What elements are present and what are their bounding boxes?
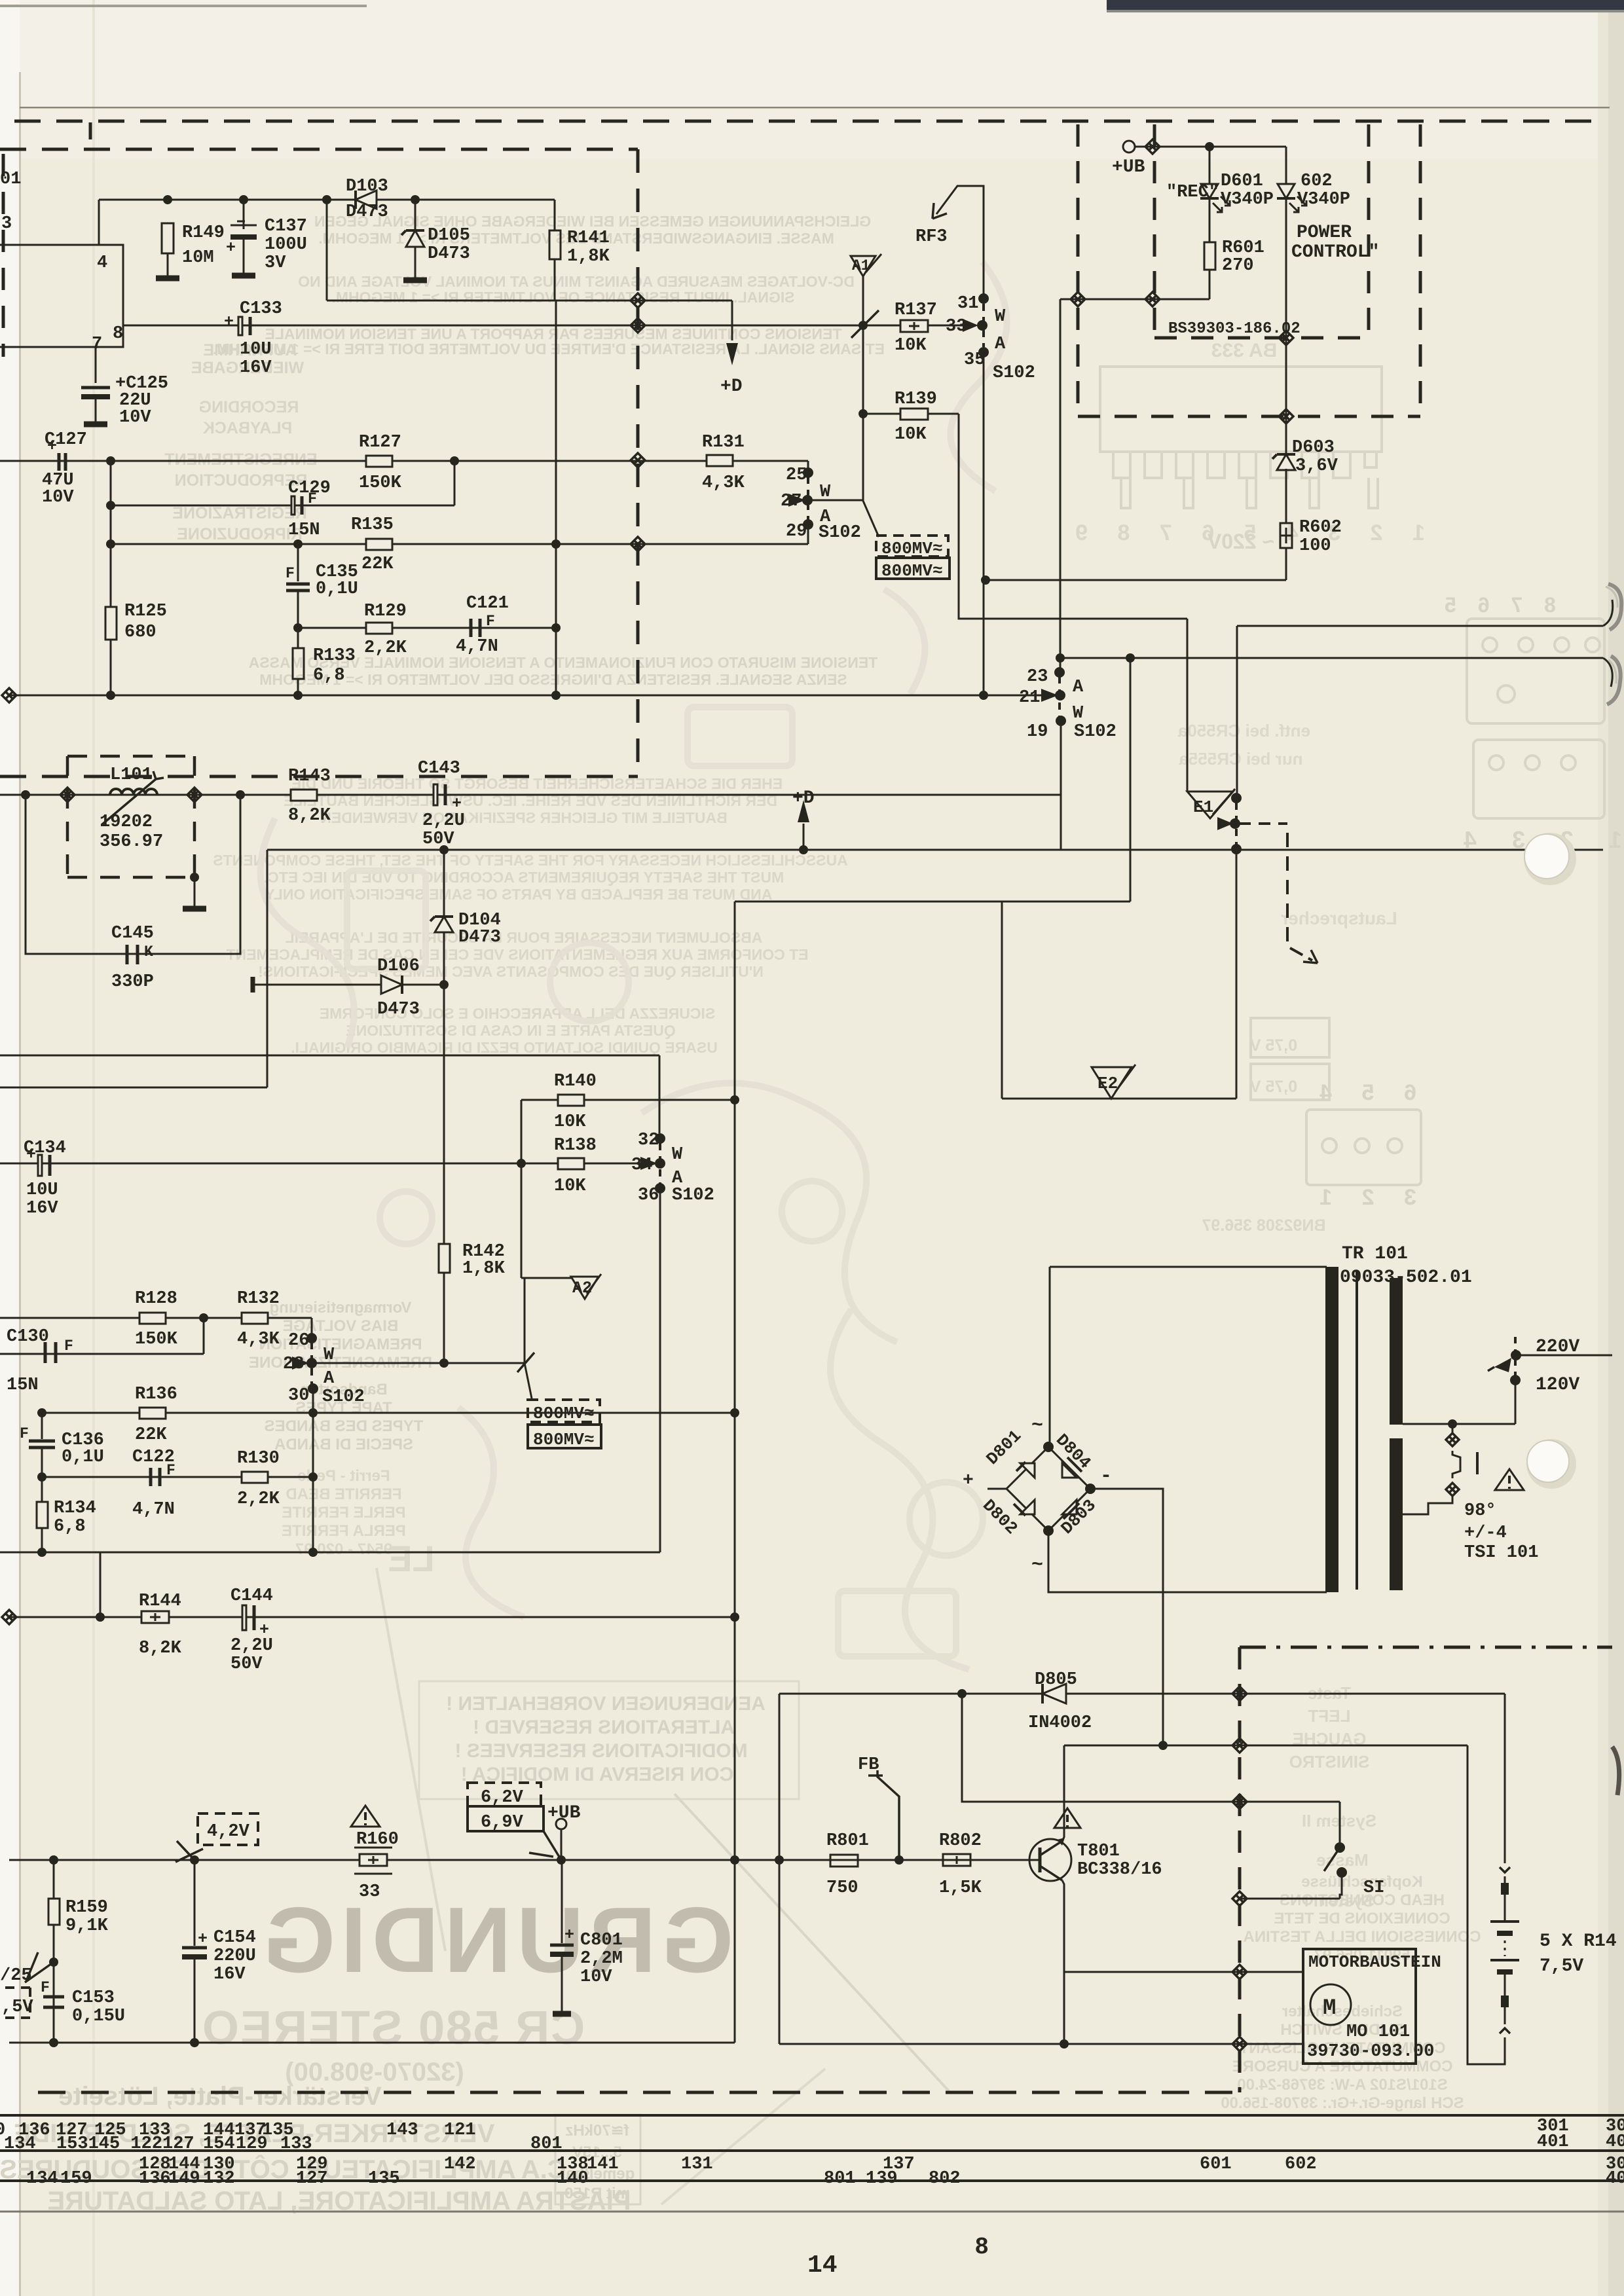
svg-text:29: 29 xyxy=(786,522,807,541)
svg-text:136: 136 xyxy=(139,2169,171,2189)
svg-text:A: A xyxy=(1073,678,1084,697)
svg-text:C134: C134 xyxy=(24,1139,66,1158)
resistor R128 xyxy=(139,1313,166,1324)
svg-text:A: A xyxy=(323,1369,335,1389)
measurement box 4,2V xyxy=(198,1813,258,1845)
svg-text:801: 801 xyxy=(530,2134,563,2154)
wire y959 xyxy=(298,627,556,629)
wire SI feed: x1469 drop and y2752 xyxy=(962,1694,1340,1802)
node dot x169 y772 xyxy=(106,501,115,510)
svg-text:ET SANS SIGNAL. LA RESISTANCE: ET SANS SIGNAL. LA RESISTANCE D'ENTREE D… xyxy=(213,340,885,357)
leader 6,9V to +UB node xyxy=(529,1831,561,1860)
svg-text:30: 30 xyxy=(288,1386,309,1406)
svg-text:3: 3 xyxy=(1,214,12,234)
svg-text:4,3K: 4,3K xyxy=(702,473,745,493)
svg-text:220V: 220V xyxy=(1536,1337,1579,1357)
wire x153 link xyxy=(100,1552,101,1617)
svg-text:D473: D473 xyxy=(346,202,388,222)
leader 4,2V to node xyxy=(175,1841,203,1862)
svg-text:RECORDING: RECORDING xyxy=(199,398,299,416)
footer rule 2 xyxy=(0,2149,1624,2152)
svg-text:6,9V: 6,9V xyxy=(481,1813,524,1832)
wire RF3 feed from contact 31 xyxy=(936,186,984,299)
wire motor return y3122 xyxy=(779,2043,1303,2045)
svg-text:33: 33 xyxy=(946,317,967,337)
wire x1530 drop to E2 rail xyxy=(1001,902,1003,1099)
wire contact 29 to y831 xyxy=(807,524,809,544)
wire R131 to contact 25 xyxy=(807,461,809,468)
svg-text:DC-VOLTAGES MEASURED AGAINST M: DC-VOLTAGES MEASURED AGAINST MINUS AT NO… xyxy=(298,273,855,290)
right connector bleeds xyxy=(1467,619,1604,818)
dashed lower module border left xyxy=(1238,1647,1242,2092)
svg-text:15N: 15N xyxy=(7,1376,39,1395)
node dot bridge right xyxy=(1085,1484,1096,1494)
measurement boxes 6,2V / 6,9V xyxy=(468,1783,544,1831)
node dot x311 y2013 xyxy=(199,1313,208,1322)
capacitor C144 xyxy=(244,1605,254,1630)
svg-text:W: W xyxy=(323,1345,335,1365)
slash mark at junction xyxy=(851,310,879,338)
capacitor C135 xyxy=(297,544,299,581)
svg-text:270: 270 xyxy=(1222,256,1254,276)
node dot x849 y831 xyxy=(551,539,561,549)
diamond node x1893 y2752 xyxy=(1232,1795,1247,1809)
wire y2666 rail xyxy=(1064,1745,1467,1747)
node dot R149 top xyxy=(163,195,172,204)
svg-text:26: 26 xyxy=(288,1331,309,1351)
svg-text:Lautsprecher: Lautsprecher xyxy=(1281,908,1397,928)
node dot x169 y1062 xyxy=(106,691,115,700)
diamond node wire y703 / dashed x974 xyxy=(631,453,645,467)
svg-text:143: 143 xyxy=(386,2121,418,2140)
svg-text:402: 402 xyxy=(1606,2132,1624,2152)
svg-text:10K: 10K xyxy=(554,1176,586,1196)
wire y1377 link xyxy=(735,901,1130,903)
wire y1062 long rail xyxy=(8,695,1048,697)
node dot x1776 y2666 xyxy=(1158,1741,1168,1750)
svg-text:2,2K: 2,2K xyxy=(237,1489,280,1509)
svg-text:159: 159 xyxy=(60,2169,92,2189)
capacitor C129 xyxy=(293,496,302,515)
resistor R136 xyxy=(139,1408,166,1419)
resistor R125 xyxy=(110,544,112,607)
svg-text:MUST THE SAFETY REQUIREMENTS A: MUST THE SAFETY REQUIREMENTS ACCORDING T… xyxy=(264,869,784,886)
node dot x1190 y2841 xyxy=(775,1855,784,1865)
svg-text:R802: R802 xyxy=(939,1831,982,1851)
diamond node x1893 y3012 xyxy=(1232,1965,1247,1979)
svg-text:6,8: 6,8 xyxy=(313,666,345,685)
dashed bottom border xyxy=(38,2091,1240,2094)
ground C125 xyxy=(84,422,107,428)
svg-text:S102: S102 xyxy=(993,363,1035,383)
diamond node x1893 y2900 xyxy=(1232,1891,1247,1906)
svg-text:21: 21 xyxy=(1019,688,1040,708)
node dot bridge bottom xyxy=(1043,1525,1054,1536)
svg-text:140: 140 xyxy=(557,2169,589,2189)
svg-text:/25: /25 xyxy=(0,1966,32,1986)
node dot x64 y2256 xyxy=(37,1472,46,1482)
svg-text:4,7N: 4,7N xyxy=(456,637,498,657)
node dot x1122 y2470 xyxy=(730,1613,739,1622)
svg-text:R131: R131 xyxy=(702,433,745,452)
svg-text:R125: R125 xyxy=(124,602,167,621)
svg-text:C121: C121 xyxy=(466,594,509,613)
wire x1726 xyxy=(1130,658,1132,902)
svg-text:154: 154 xyxy=(203,2134,235,2154)
wire vertical x849 R141 column xyxy=(555,301,557,695)
svg-text:SPECIE DI BANDA: SPECIE DI BANDA xyxy=(274,1436,413,1453)
capacitor C143 xyxy=(435,784,445,805)
leader to level boxes xyxy=(863,501,879,537)
diamond node x103 y1214 xyxy=(60,788,75,802)
svg-text:800MV: 800MV xyxy=(881,539,932,558)
svg-text:22K: 22K xyxy=(361,555,394,574)
svg-text:356.97: 356.97 xyxy=(100,832,163,852)
resistor R133 xyxy=(297,628,299,648)
svg-text:E2: E2 xyxy=(1098,1074,1118,1093)
svg-text:0,15U: 0,15U xyxy=(72,2007,125,2026)
svg-text:C127: C127 xyxy=(45,430,87,450)
node dot x82 y3120 xyxy=(49,2038,58,2047)
wire y886 xyxy=(986,579,1286,581)
wire C122 rail y2256 xyxy=(42,1476,313,1478)
wire R128 rail y2013 xyxy=(0,1317,312,1319)
svg-text:100U: 100U xyxy=(265,235,307,255)
wiper arrow contact 27 xyxy=(788,494,805,507)
svg-text:TR 101: TR 101 xyxy=(1342,1244,1408,1264)
svg-text:Verstärker-Platte, Lötseite: Verstärker-Platte, Lötseite xyxy=(58,2082,382,2111)
node dot x857 y2841 xyxy=(557,1855,566,1865)
svg-text:F: F xyxy=(20,1425,29,1442)
svg-text:F: F xyxy=(486,613,495,630)
svg-text:1,8K: 1,8K xyxy=(462,1259,506,1279)
svg-text:135: 135 xyxy=(368,2169,400,2189)
resistor R129 xyxy=(366,623,392,634)
svg-text:800MV: 800MV xyxy=(881,561,932,581)
svg-text:nur bei CR555a: nur bei CR555a xyxy=(1179,749,1303,769)
svg-text:SIGNAL. INPUT RESISTANCE OF VO: SIGNAL. INPUT RESISTANCE OF VOLTMETER RI… xyxy=(331,289,794,306)
wire TSI to secondary bottom xyxy=(1403,1495,1452,1514)
RF3 arrowhead xyxy=(932,203,947,219)
svg-text:BC338/16: BC338/16 xyxy=(1077,1860,1162,1880)
svg-text:+D: +D xyxy=(792,788,815,809)
svg-text:01: 01 xyxy=(0,170,21,189)
svg-text:10K: 10K xyxy=(895,425,927,445)
resistor R142 xyxy=(439,1244,450,1273)
svg-text:8: 8 xyxy=(113,324,123,344)
svg-text:QUESTA PARTE E IN CASA DI SOST: QUESTA PARTE E IN CASA DI SOSTITUZIONE xyxy=(346,1022,675,1039)
diamond node x1893 y2666 xyxy=(1232,1738,1247,1753)
resistor R127 xyxy=(366,456,392,467)
switch E1 contacts xyxy=(1231,793,1242,803)
svg-text:+: + xyxy=(564,1925,574,1944)
node dot x678 y1298 xyxy=(439,845,449,854)
+D supply arrow top xyxy=(731,301,733,340)
diamond node y2470 left edge xyxy=(2,1610,16,1624)
resistor R140 xyxy=(558,1095,584,1106)
svg-text:ALTERATIONS RESERVED !: ALTERATIONS RESERVED ! xyxy=(473,1717,735,1738)
svg-text:R136: R136 xyxy=(135,1385,177,1404)
diamond node x1646 y457 xyxy=(1071,292,1085,306)
transformer core line xyxy=(1356,1271,1358,1590)
svg-text:+: + xyxy=(198,1929,208,1948)
diamond node x1964 y636 xyxy=(1279,409,1293,424)
svg-text:800MV: 800MV xyxy=(533,1430,584,1449)
svg-text:R143: R143 xyxy=(288,767,331,786)
svg-text:8 7 6 5: 8 7 6 5 xyxy=(1437,593,1556,617)
wire bridge bottom to primary bottom xyxy=(1048,1531,1327,1592)
diamond node TSI bottom xyxy=(1446,1483,1459,1496)
svg-text:16V: 16V xyxy=(213,1965,246,1984)
wire S102 col1 drop 35 to y1062 xyxy=(983,352,985,695)
svg-text:LE: LE xyxy=(388,1538,435,1579)
resistor R132 xyxy=(242,1313,268,1324)
node dot x1373 y2841 xyxy=(895,1855,904,1865)
svg-text:33: 33 xyxy=(359,1882,380,1902)
node dot y1298 corner x1888 xyxy=(1232,845,1241,854)
svg-text:W: W xyxy=(995,307,1006,327)
svg-text:+: + xyxy=(224,312,234,331)
svg-text:0,75 V: 0,75 V xyxy=(1250,1078,1298,1096)
wire contact 36 drop xyxy=(659,1188,661,1552)
svg-text:131: 131 xyxy=(681,2155,713,2174)
svg-text:602: 602 xyxy=(1285,2155,1317,2174)
node dot x1502 y1062 xyxy=(979,691,988,700)
svg-text:R149: R149 xyxy=(182,223,225,243)
node dot D103 anode branch xyxy=(322,195,331,204)
footer rule 4 thin xyxy=(0,2211,1624,2213)
capacitor C801 xyxy=(561,1860,563,1943)
svg-text:16V: 16V xyxy=(26,1199,58,1218)
svg-text:2,2K: 2,2K xyxy=(364,638,407,658)
svg-text:153145 122127: 153145 122127 xyxy=(56,2134,194,2154)
ground C801 xyxy=(553,2011,571,2017)
svg-text:C143: C143 xyxy=(418,759,460,778)
node dot x796 y1777 xyxy=(517,1159,526,1168)
svg-text:19: 19 xyxy=(1027,722,1048,742)
diamond node x297 y1214 xyxy=(187,788,202,802)
wire E2 rail y1678 xyxy=(1002,1098,1236,1100)
zener diode D104 xyxy=(443,850,445,917)
node dot D601 top xyxy=(1205,142,1214,151)
svg-text:D603: D603 xyxy=(1292,438,1335,458)
svg-text:139: 139 xyxy=(866,2169,898,2189)
node E2 triangle xyxy=(1092,1067,1132,1099)
node dot x1122 y2841 xyxy=(730,1855,739,1865)
svg-text:AENDERUNGEN VORBEHALTEN !: AENDERUNGEN VORBEHALTEN ! xyxy=(446,1693,766,1715)
svg-text:3,6V: 3,6V xyxy=(1295,456,1338,476)
svg-text:601: 601 xyxy=(1200,2155,1232,2174)
node dot D105 top xyxy=(411,195,420,204)
svg-text:+: + xyxy=(452,794,462,813)
resistor R138 xyxy=(558,1158,584,1169)
dashed border stub x138 xyxy=(89,122,92,149)
wire secondary top y2175 xyxy=(1403,1384,1515,1424)
+ terminal bridge xyxy=(987,1488,1006,1490)
svg-text:EHER DIE SCHAETERSICHERHEIT BE: EHER DIE SCHAETERSICHERHEIT BESORGT SO T… xyxy=(291,775,783,792)
wire y456 corner to power area xyxy=(1060,299,1209,301)
wire contact 30 drop xyxy=(312,1389,314,1477)
svg-text:150K: 150K xyxy=(135,1330,178,1349)
node dot R142 bottom on y2082 xyxy=(439,1358,449,1368)
svg-text:1,8K: 1,8K xyxy=(567,247,610,266)
svg-text:Masse: Masse xyxy=(1316,1850,1369,1870)
svg-text:+: + xyxy=(226,238,236,257)
resistor R801 xyxy=(830,1855,858,1867)
svg-text:D473: D473 xyxy=(377,1000,420,1019)
+D supply arrow mid xyxy=(803,824,805,850)
node A2 triangle xyxy=(571,1277,599,1299)
dashed link E1 wiper right xyxy=(1239,822,1287,825)
svg-text:34: 34 xyxy=(631,1156,652,1175)
svg-text:220U: 220U xyxy=(213,1946,256,1966)
node dot x297 y2841 xyxy=(190,1855,199,1865)
zener diode D603 xyxy=(1285,338,1287,453)
svg-text:K: K xyxy=(144,943,153,960)
transistor T801 xyxy=(1029,1839,1071,1881)
svg-text:3V: 3V xyxy=(265,253,286,273)
svg-text:F: F xyxy=(286,565,295,582)
svg-text:W: W xyxy=(672,1145,683,1165)
wire top rail y305 xyxy=(99,199,555,201)
svg-text:50V: 50V xyxy=(231,1654,263,1674)
svg-text:REGISTRAZIONE: REGISTRAZIONE xyxy=(172,504,307,522)
resistor R141 xyxy=(554,200,556,230)
svg-text:S102: S102 xyxy=(1074,722,1116,742)
svg-text:AND MUST BE REPLACED BY PARTS: AND MUST BE REPLACED BY PARTS OF SAME SP… xyxy=(263,886,773,903)
svg-text:CONTROL": CONTROL" xyxy=(1291,242,1379,263)
node dot C135 top xyxy=(293,539,303,549)
svg-text:4,3K: 4,3K xyxy=(237,1330,280,1349)
node dot x367 y1214 xyxy=(236,790,245,799)
resistor R149 xyxy=(162,223,174,253)
svg-text:TSI 101: TSI 101 xyxy=(1464,1543,1538,1563)
faint diagonal creases xyxy=(674,1794,950,2092)
ground R149 xyxy=(156,276,179,282)
svg-text:6 5 4: 6 5 4 xyxy=(1308,1080,1416,1105)
resistor R602 with level mark xyxy=(1280,523,1292,548)
svg-text:+/-4: +/-4 xyxy=(1464,1523,1507,1543)
svg-text:31: 31 xyxy=(957,294,978,314)
svg-text:FB: FB xyxy=(858,1755,879,1775)
svg-text:MODIFICATIONS RESERVEES !: MODIFICATIONS RESERVEES ! xyxy=(454,1740,747,1762)
svg-text:R139: R139 xyxy=(895,390,937,409)
wire link dot to contact 23 xyxy=(1060,658,1061,668)
svg-text:D103: D103 xyxy=(346,177,388,196)
dashed box power control inner xyxy=(1153,124,1156,338)
wire x1122 long vertical xyxy=(734,902,736,1860)
wire wiper 27 to A1 column xyxy=(807,500,863,501)
wire R139 right drop to y945 xyxy=(959,414,1187,619)
svg-text:2,2M: 2,2M xyxy=(580,1949,623,1969)
capacitor C137 xyxy=(231,200,257,229)
wire +UB rail y2841 xyxy=(9,1859,1040,1861)
dashed box L101 xyxy=(67,756,194,877)
resistor R143 xyxy=(291,790,317,801)
svg-text:35: 35 xyxy=(964,350,985,370)
svg-text:S102: S102 xyxy=(672,1186,714,1205)
svg-text:RIPRODUZIONE: RIPRODUZIONE xyxy=(177,525,303,543)
diode D802 xyxy=(1020,1500,1035,1514)
arrowhead dashed leader xyxy=(1303,950,1318,963)
wire pin4 drop xyxy=(98,200,100,245)
svg-text:98°: 98° xyxy=(1464,1501,1496,1521)
dashed module box outer right xyxy=(1077,124,1080,416)
resistor R601 xyxy=(1204,242,1215,270)
svg-text:AUSSCHLIESSLICH NECESSARY FOR: AUSSCHLIESSLICH NECESSARY FOR THE SAFETY… xyxy=(213,852,848,869)
node dot x849 y959 xyxy=(551,623,561,632)
measurement box 800MV lower set2 xyxy=(528,1425,601,1448)
svg-text:+UB: +UB xyxy=(1112,157,1145,177)
svg-text:134: 134 xyxy=(4,2134,36,2154)
wire +UB rail y224 xyxy=(1135,146,1286,148)
svg-text:PERLE FERRITE: PERLE FERRITE xyxy=(282,1504,405,1522)
dashed border second segment left xyxy=(0,148,638,151)
wire R132 to contact 26 xyxy=(311,1318,313,1334)
wire R136 rail y2158 xyxy=(42,1412,735,1414)
resistor R130 xyxy=(242,1472,268,1483)
svg-text:CR 580 STEREO: CR 580 STEREO xyxy=(201,2002,585,2054)
svg-text:R127: R127 xyxy=(359,433,401,452)
svg-text:R144: R144 xyxy=(139,1592,181,1611)
wire x1190 column xyxy=(779,1694,781,2044)
node dot x1469 y2587 xyxy=(957,1689,967,1698)
svg-text:R134: R134 xyxy=(54,1499,96,1518)
svg-text:8,2K: 8,2K xyxy=(288,806,331,826)
node dot x1122 y2158 xyxy=(730,1408,739,1417)
node dot left x39 xyxy=(21,790,30,799)
thermal switch TSI101 column xyxy=(1452,1424,1454,1432)
svg-text:801: 801 xyxy=(824,2169,856,2189)
svg-text:C130: C130 xyxy=(7,1327,49,1347)
svg-text:D106: D106 xyxy=(377,957,420,976)
leader to level boxes set2 xyxy=(525,1363,532,1398)
wire y459 D103/D105 return xyxy=(326,200,328,301)
diode D106 xyxy=(251,977,255,993)
svg-text:149: 149 xyxy=(168,2169,200,2189)
svg-text:R138: R138 xyxy=(554,1136,597,1156)
node dot x849 y1062 xyxy=(551,691,561,700)
ground L101 box xyxy=(194,877,196,906)
zener diode D105 xyxy=(415,200,416,230)
svg-text:V340P: V340P xyxy=(1221,190,1274,210)
wiper arrow contact 28 xyxy=(292,1357,309,1370)
transformer secondary bar upper xyxy=(1390,1278,1403,1425)
wire y704 main rail xyxy=(0,460,808,462)
svg-text:BS39303-186.02: BS39303-186.02 xyxy=(1168,320,1301,338)
svg-text:150K: 150K xyxy=(359,473,402,493)
svg-text:C129: C129 xyxy=(288,479,331,498)
wire y1612 rail xyxy=(0,1055,659,1057)
svg-text:GLEICHSPANNUNGEN GEMESSEN BEI: GLEICHSPANNUNGEN GEMESSEN BEI WIEDERGABE… xyxy=(314,213,871,230)
right top mirrored IC bleed (DIP package) xyxy=(1100,367,1382,508)
wire y1661 left rail xyxy=(0,1087,267,1089)
svg-text:BA 333: BA 333 xyxy=(1211,340,1278,361)
svg-text:10U: 10U xyxy=(240,340,272,359)
svg-text:6,8: 6,8 xyxy=(54,1517,86,1537)
node dot A1/R137 junction xyxy=(858,321,868,330)
svg-text:R160: R160 xyxy=(356,1830,399,1850)
diode D804 xyxy=(1062,1463,1077,1478)
svg-text:R129: R129 xyxy=(364,602,407,621)
wire y956 E1 top feed xyxy=(1237,625,1603,627)
svg-text:R133: R133 xyxy=(313,646,356,666)
svg-text:REPRODUCTION: REPRODUCTION xyxy=(175,471,308,490)
node dot x1619 y1005 xyxy=(1056,653,1065,663)
wire wiper28 rail y2082 xyxy=(312,1278,525,1363)
measurement box 800MV upper set2 xyxy=(528,1400,600,1422)
switch S102 contacts 31/33/35 xyxy=(978,293,989,304)
